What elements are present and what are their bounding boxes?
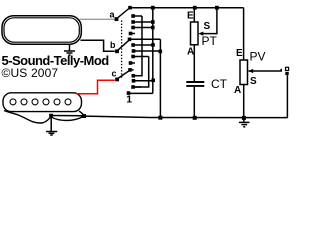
svg-text:b: b bbox=[110, 40, 116, 50]
wire PV A to ground rail bbox=[243, 85, 245, 118]
node junction PV ground bbox=[242, 116, 246, 120]
node junction bridge ground bbox=[49, 114, 84, 132]
wire bridge hot (red) to node c bbox=[76, 80, 115, 94]
node junction a3 bbox=[151, 26, 155, 30]
wire PT wiper bbox=[203, 8, 217, 34]
switch pole a contact 3 bbox=[131, 26, 153, 30]
wire bus b3 to c3 bbox=[135, 57, 149, 88]
node junction rail x195 (PT E) bbox=[193, 6, 197, 10]
potentiometer PV body bbox=[240, 60, 248, 85]
switch pole c common bbox=[115, 71, 129, 82]
switch pole a contact 1 bbox=[131, 14, 142, 18]
node junction CT / ground rail bbox=[193, 116, 197, 120]
node junction ground rail x160 bbox=[158, 116, 162, 120]
switch pole c contact 1 bbox=[132, 74, 142, 78]
switch pole b contact 3 bbox=[131, 55, 148, 59]
wire PV wiper to jack bbox=[249, 69, 282, 71]
switch link dotted line bbox=[121, 21, 123, 79]
wire bus hot x153 bbox=[152, 8, 154, 94]
switch pole b common bbox=[115, 40, 129, 53]
connector jack sleeve bbox=[285, 72, 288, 75]
switch pole a contact 2 bbox=[131, 20, 153, 24]
svg-text:E: E bbox=[236, 48, 243, 59]
capacitor CT bbox=[186, 82, 204, 118]
wire PT E drop bbox=[193, 8, 195, 22]
wire top rail bbox=[130, 7, 244, 9]
wire bottom ground rail bbox=[84, 116, 288, 118]
svg-text:A: A bbox=[234, 85, 241, 96]
wire PV E drop from rail corner bbox=[243, 8, 245, 60]
node junction rail x217 (PT S) bbox=[215, 6, 219, 10]
svg-text:PT: PT bbox=[202, 34, 218, 48]
connector jack tip bbox=[286, 67, 289, 70]
switch pole b contact 4 stub bbox=[129, 61, 135, 65]
wire jack sleeve to ground rail bbox=[286, 75, 288, 118]
node junction b1 bbox=[151, 43, 155, 47]
wire neck cold to node b bbox=[81, 40, 115, 51]
switch pole c lever tip contact stub bbox=[128, 68, 133, 72]
ground (bridge) bbox=[46, 132, 57, 136]
switch pole c contact 3 bbox=[131, 85, 141, 89]
potentiometer PT body bbox=[191, 22, 199, 45]
ground (neck pickup) bbox=[64, 44, 75, 55]
switch pole c contact 4 bottom bbox=[127, 91, 153, 95]
switch pole b contact 2 bbox=[132, 49, 161, 53]
svg-text:1: 1 bbox=[126, 93, 132, 105]
node junction bottom rail / bridge bbox=[82, 114, 86, 118]
svg-text:c: c bbox=[112, 69, 117, 79]
node junction b2 x160 bbox=[159, 50, 163, 54]
svg-text:PV: PV bbox=[250, 49, 266, 63]
svg-text:E: E bbox=[187, 11, 194, 22]
node junction a2 bbox=[151, 20, 155, 24]
node junction c2 bbox=[151, 79, 155, 83]
switch pole c contact 2 bbox=[132, 79, 153, 83]
switch pole b lever tip contact bbox=[128, 38, 161, 42]
node junction rail x153 bbox=[151, 6, 155, 10]
ground (output) bbox=[239, 118, 250, 127]
wire bus b-tip x160 down to ground rail bbox=[159, 39, 161, 117]
switch pole b contact 1 bbox=[131, 43, 153, 47]
wire bus a1 to c1 bbox=[135, 16, 143, 76]
svg-text:A: A bbox=[187, 47, 194, 58]
neck pickup P1 bbox=[2, 16, 81, 45]
svg-text:CT: CT bbox=[211, 77, 228, 91]
svg-text:©US 2007: ©US 2007 bbox=[2, 66, 59, 80]
wire bridge cold to junction bbox=[79, 111, 84, 116]
bridge pickup P2 bbox=[3, 93, 82, 112]
switch pole a common bbox=[115, 8, 130, 21]
svg-text:S: S bbox=[250, 76, 257, 87]
svg-text:S: S bbox=[204, 21, 211, 32]
switch pole a lever tip contact bbox=[128, 6, 132, 10]
wire neck hot (gray) to node a bbox=[80, 18, 115, 20]
arrow PT wiper bbox=[198, 32, 203, 36]
switch pole a contact 4 stub bbox=[129, 32, 135, 36]
wire PT A to CT bbox=[193, 45, 195, 81]
arrow PV wiper bbox=[248, 69, 253, 73]
bridge plate outline wire bbox=[4, 111, 50, 124]
